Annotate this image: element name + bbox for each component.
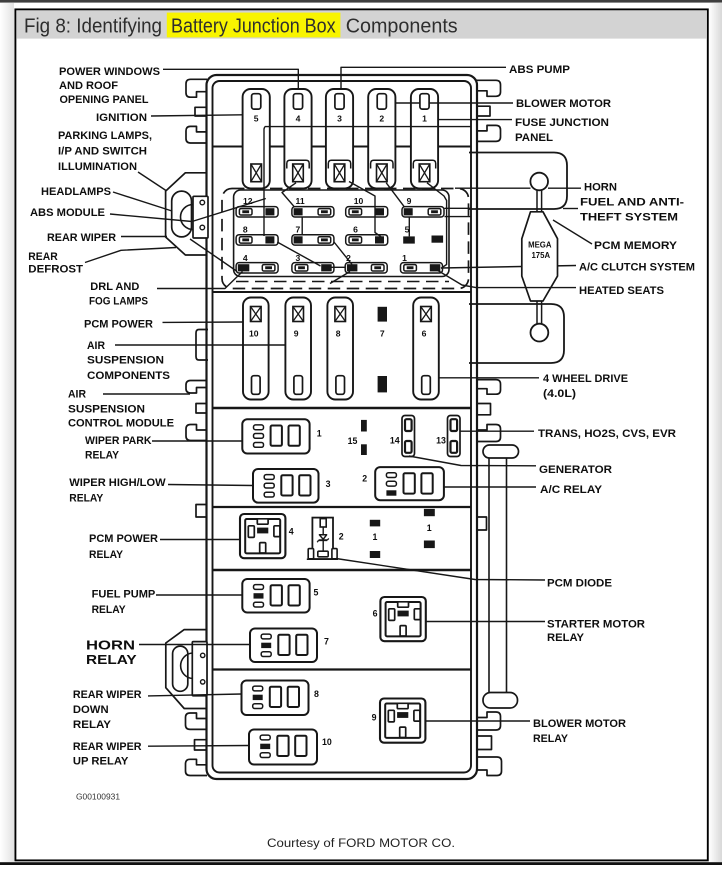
relay 7 horn <box>250 629 317 663</box>
wire fuse 9 to fuse 5 <box>408 217 410 237</box>
minifuse area solid box <box>234 190 449 277</box>
svg-text:RELAY: RELAY <box>547 632 585 644</box>
svg-text:8: 8 <box>336 328 341 338</box>
svg-text:7: 7 <box>296 225 301 235</box>
svg-text:FUSE JUNCTION: FUSE JUNCTION <box>515 117 609 129</box>
svg-text:FUEL PUMP: FUEL PUMP <box>92 589 156 601</box>
divider under top fuse row <box>213 145 471 147</box>
connector C2 pin circles <box>201 653 205 657</box>
left tab bracket mid 1 <box>186 381 207 394</box>
wire a/c relay leader <box>444 486 536 488</box>
svg-text:5: 5 <box>314 588 319 598</box>
svg-text:4: 4 <box>243 253 248 263</box>
wire slot2 X to fuse 9 <box>386 183 404 207</box>
left tab bracket bottom 1 <box>186 713 208 729</box>
wire power windows leader <box>163 69 298 89</box>
svg-text:Fig 8: IdentifyingBattery Junc: Fig 8: IdentifyingBattery Junction BoxCo… <box>24 15 458 38</box>
svg-text:7: 7 <box>380 328 385 338</box>
svg-text:11: 11 <box>296 196 305 206</box>
wire blower motor relay leader <box>426 720 531 722</box>
left tab bracket mid 2 <box>186 425 207 441</box>
slot windows row2 bottom <box>252 376 261 395</box>
mega fuse bottom stem <box>536 301 538 324</box>
svg-text:10: 10 <box>249 328 259 338</box>
svg-text:FUEL AND ANTI-: FUEL AND ANTI- <box>580 197 684 209</box>
fuse box outer shell <box>207 75 478 779</box>
wire pcm power relay leader <box>160 539 240 541</box>
mega fuse bottom ball <box>531 324 549 342</box>
relay 4 pcm power (square) <box>240 514 285 558</box>
divider below second fuse section <box>213 407 471 410</box>
svg-text:7: 7 <box>324 637 329 647</box>
svg-text:TRANS, HO2S, CVS, EVR: TRANS, HO2S, CVS, EVR <box>538 428 676 440</box>
svg-text:1: 1 <box>372 532 377 542</box>
wire slot5 to fuse 8 <box>263 127 266 236</box>
svg-text:RELAY: RELAY <box>92 604 126 616</box>
svg-text:PCM POWER: PCM POWER <box>84 319 153 331</box>
wire air susp control module leader <box>103 393 190 395</box>
minifuse 11 <box>292 207 334 217</box>
svg-text:G00100931: G00100931 <box>76 793 120 802</box>
svg-text:BLOWER MOTOR: BLOWER MOTOR <box>516 98 611 110</box>
fuse box inner shell <box>213 81 472 773</box>
svg-text:9: 9 <box>294 328 299 338</box>
right dog-bone channel top pill <box>483 445 519 458</box>
svg-text:RELAY: RELAY <box>85 450 119 462</box>
left tab bracket top 1 <box>186 79 207 97</box>
fuse 7 bars row2 <box>378 307 387 322</box>
svg-text:DOWN: DOWN <box>73 704 109 716</box>
slot X fuses row1 <box>251 164 262 182</box>
svg-text:IGNITION: IGNITION <box>96 112 147 124</box>
wire fuse 9 to right edge upper <box>445 207 472 209</box>
mega fuse top stem <box>536 190 538 212</box>
wire ignition leader <box>151 115 242 116</box>
svg-text:I/P AND SWITCH: I/P AND SWITCH <box>58 146 147 158</box>
wire fuse 3 to fuse 2 <box>332 266 346 268</box>
minifuse 2 <box>345 263 387 273</box>
divider below relay row 5 <box>213 668 471 670</box>
minifuse 8 <box>236 235 278 245</box>
left edge notch mid <box>196 404 207 414</box>
svg-text:A/C CLUTCH SYSTEM: A/C CLUTCH SYSTEM <box>579 262 695 274</box>
relay 5 fuel pump <box>242 579 309 613</box>
wire wiper park leader <box>152 440 242 442</box>
right dog-bone channel bottom pill <box>483 693 518 709</box>
svg-text:13: 13 <box>436 436 446 446</box>
svg-text:6: 6 <box>353 225 358 235</box>
wire slot1 X down to fuse 1 <box>427 183 447 268</box>
svg-text:PCM DIODE: PCM DIODE <box>547 578 613 590</box>
right tab bracket bottom 2 <box>477 757 502 776</box>
svg-text:14: 14 <box>390 436 400 446</box>
right tab bracket mid 2 <box>477 425 501 442</box>
svg-text:Courtesy of FORD MOTOR CO.: Courtesy of FORD MOTOR CO. <box>267 836 455 850</box>
svg-text:4: 4 <box>289 526 294 536</box>
dashed border of minifuse area <box>222 189 469 289</box>
bracket over slot3 X <box>328 160 350 168</box>
wire pcm diode leader <box>336 559 545 581</box>
svg-text:MEGA: MEGA <box>528 240 552 249</box>
bottom dark strip <box>0 862 722 865</box>
fuse 1b terminals <box>424 509 435 516</box>
svg-text:AND ROOF: AND ROOF <box>59 80 118 92</box>
wire fuel anti-theft leader <box>563 208 578 210</box>
right edge notch top <box>477 106 491 116</box>
minifuse 4 <box>236 263 278 273</box>
relay 8 rear wiper down <box>242 681 309 716</box>
svg-text:PCM POWER: PCM POWER <box>89 533 158 545</box>
wire fuse 2 stub <box>330 272 350 284</box>
svg-text:1: 1 <box>317 429 322 439</box>
wire pcm power leader <box>163 321 244 323</box>
bracket over slot1 X <box>413 160 435 168</box>
minifuse 3 <box>292 263 334 273</box>
left edge notch bottom <box>195 740 208 750</box>
svg-text:THEFT SYSTEM: THEFT SYSTEM <box>580 212 678 224</box>
minifuse 1 <box>401 263 443 273</box>
svg-text:WIPER PARK: WIPER PARK <box>85 435 152 447</box>
svg-text:RELAY: RELAY <box>89 549 123 561</box>
svg-text:10: 10 <box>354 196 364 206</box>
rounded duct A (horn feed) <box>469 153 567 210</box>
svg-text:SUSPENSION: SUSPENSION <box>68 404 145 416</box>
wire abs pump leader <box>341 67 506 89</box>
svg-text:HEADLAMPS: HEADLAMPS <box>41 186 112 198</box>
horn wire <box>455 187 531 189</box>
slot windows row1 <box>252 94 261 109</box>
wire abs module leader <box>110 199 266 222</box>
fuse 13 body <box>448 416 461 457</box>
long bus wire in top section <box>265 126 471 128</box>
wire fuse junction panel leader <box>438 119 513 121</box>
wire 4 wheel drive leader <box>439 377 539 379</box>
wire heated seats leader <box>437 270 576 288</box>
svg-text:3: 3 <box>326 479 331 489</box>
svg-text:9: 9 <box>372 713 377 723</box>
connector C2 octagon outline <box>166 630 207 709</box>
svg-text:4: 4 <box>296 113 301 123</box>
wire slot3 X to fuse 10 and fuse 6 <box>349 182 381 237</box>
fuse 1a terminals <box>370 520 380 527</box>
wire rear defrost leader <box>85 248 176 263</box>
svg-text:RELAY: RELAY <box>533 733 569 745</box>
svg-text:3: 3 <box>337 113 342 123</box>
inner dash row at bottom of minifuse area <box>236 281 449 283</box>
svg-text:HORN: HORN <box>86 638 135 653</box>
connector C1 socket rect <box>193 196 208 238</box>
wire drl fog leader <box>157 272 243 289</box>
relay 2 a/c <box>375 467 444 500</box>
svg-text:2: 2 <box>346 253 351 263</box>
left edge notch low <box>196 505 207 518</box>
top dark strip <box>0 0 722 3</box>
svg-text:WIPER HIGH/LOW: WIPER HIGH/LOW <box>69 477 166 489</box>
svg-text:PARKING LAMPS,: PARKING LAMPS, <box>58 130 152 142</box>
rounded duct B (lower horn feed) <box>469 304 564 363</box>
wire generator leader <box>409 456 536 466</box>
minifuse 6 <box>346 235 388 245</box>
divider under second fuse row <box>213 291 471 293</box>
svg-text:GENERATOR: GENERATOR <box>539 464 612 476</box>
wire air suspension components leader <box>115 344 286 346</box>
connector C1 pin circles <box>200 200 205 205</box>
svg-text:12: 12 <box>243 196 253 206</box>
wire starter motor leader <box>426 621 545 623</box>
wire pcm memory leader <box>553 220 592 244</box>
svg-text:(4.0L): (4.0L) <box>543 388 576 400</box>
minifuse 5 terminals <box>403 236 415 243</box>
relay 6 starter motor (square) <box>380 597 425 641</box>
wire rear wiper down leader <box>148 694 242 696</box>
left tab bracket top 2 <box>186 126 207 143</box>
relay 10 rear wiper up <box>249 730 317 765</box>
bracket over slot4 X <box>287 160 309 168</box>
svg-text:8: 8 <box>243 225 248 235</box>
relay 3 wiper high/low <box>253 469 319 503</box>
relay 1 wiper park <box>242 419 309 453</box>
svg-text:DRL AND: DRL AND <box>90 281 139 293</box>
svg-text:5: 5 <box>254 113 259 123</box>
wire rear wiper up leader <box>148 745 249 748</box>
svg-text:ABS MODULE: ABS MODULE <box>30 207 106 219</box>
svg-text:CONTROL MODULE: CONTROL MODULE <box>68 418 175 430</box>
wire wiper high/low leader <box>168 485 253 486</box>
svg-text:HORN: HORN <box>584 182 617 194</box>
fuse 14 body <box>402 416 415 457</box>
wire blower motor leader <box>396 102 513 104</box>
svg-text:REAR WIPER: REAR WIPER <box>73 741 142 753</box>
right edge notch mid <box>477 404 491 415</box>
wire rear wiper leader <box>121 236 167 238</box>
right dog-bone channel rails <box>488 458 490 692</box>
minifuse 9 <box>402 207 444 217</box>
svg-text:POWER WINDOWS: POWER WINDOWS <box>59 66 161 78</box>
svg-text:RELAY: RELAY <box>69 493 103 505</box>
svg-text:8: 8 <box>314 689 319 699</box>
right tab bracket bottom 1 <box>477 712 501 730</box>
wire trans leader <box>460 430 534 432</box>
svg-text:ABS PUMP: ABS PUMP <box>509 64 571 76</box>
wire fuse 11 to fuse 7 <box>301 217 303 235</box>
svg-text:2: 2 <box>379 113 384 123</box>
maxi fuse slots row1 (5,4,3,2,1) <box>243 89 270 188</box>
mega fuse top ball <box>530 173 548 191</box>
svg-text:AIR: AIR <box>87 340 105 352</box>
fuse 15 terminals <box>361 420 367 432</box>
svg-text:2: 2 <box>339 532 344 542</box>
svg-text:STARTER MOTOR: STARTER MOTOR <box>547 619 645 631</box>
pcm diode D2 body <box>312 518 333 559</box>
wire fuse 7 to fuse 2 <box>334 242 352 265</box>
left tall bracket mid <box>196 330 208 361</box>
svg-text:5: 5 <box>405 225 410 235</box>
svg-text:6: 6 <box>373 609 378 619</box>
svg-text:6: 6 <box>422 328 427 338</box>
svg-text:UP RELAY: UP RELAY <box>73 756 129 768</box>
minifuse 7 <box>292 235 334 245</box>
svg-text:1: 1 <box>402 253 407 263</box>
wire horn relay leader <box>139 644 250 646</box>
wire connector to fuse 4 <box>190 239 237 271</box>
svg-text:SUSPENSION: SUSPENSION <box>87 355 164 367</box>
svg-text:REAR WIPER: REAR WIPER <box>47 232 116 244</box>
wire fuse 9 to right edge lower <box>445 216 472 218</box>
fuse slots row2 (10,9,8,6) <box>243 298 269 400</box>
right edge notch bottom <box>477 736 492 750</box>
svg-text:175A: 175A <box>531 251 550 260</box>
wire slot4 X to fuse 11 <box>282 183 296 207</box>
svg-text:4 WHEEL DRIVE: 4 WHEEL DRIVE <box>543 373 629 385</box>
right edge notch low <box>477 517 487 530</box>
minifuse 12 <box>236 207 278 217</box>
minifuse 10 <box>346 207 388 217</box>
svg-text:PCM MEMORY: PCM MEMORY <box>594 240 678 252</box>
mega fuse body MEGA 175A <box>522 212 558 301</box>
connector C1 octagon outline <box>166 173 207 255</box>
right tab bracket top 1 <box>477 80 501 96</box>
wire fuel pump leader <box>156 594 242 596</box>
svg-text:1: 1 <box>427 523 432 533</box>
relay 9 blower motor (square) <box>380 699 425 743</box>
right tab bracket mid 1 <box>477 380 501 395</box>
svg-text:15: 15 <box>348 436 358 446</box>
svg-text:OPENING PANEL: OPENING PANEL <box>60 94 149 106</box>
svg-text:RELAY: RELAY <box>73 719 112 731</box>
bracket over slot2 X <box>371 160 393 168</box>
svg-text:DEFROST: DEFROST <box>28 264 83 276</box>
svg-text:ILLUMINATION: ILLUMINATION <box>58 161 137 173</box>
svg-text:COMPONENTS: COMPONENTS <box>87 370 171 382</box>
left edge notch top <box>195 107 207 116</box>
svg-text:FOG LAMPS: FOG LAMPS <box>89 296 148 308</box>
title bar <box>16 10 706 38</box>
yellow highlight <box>167 13 341 38</box>
svg-text:HEATED SEATS: HEATED SEATS <box>579 285 665 297</box>
svg-text:10: 10 <box>322 737 332 747</box>
svg-text:2: 2 <box>362 474 367 484</box>
wire illumination leader <box>138 172 166 191</box>
svg-text:1: 1 <box>422 113 427 123</box>
connector C2 oval <box>173 646 188 691</box>
svg-text:AIR: AIR <box>68 389 86 401</box>
connector C2 D-arc <box>181 653 193 679</box>
A/C clutch wire through mega fuse <box>441 266 576 269</box>
right tab bracket top 2 <box>477 125 501 141</box>
svg-text:3: 3 <box>296 253 301 263</box>
svg-text:9: 9 <box>407 196 412 206</box>
svg-text:RELAY: RELAY <box>86 652 137 667</box>
slot X fuses row2 <box>251 307 262 322</box>
svg-text:A/C RELAY: A/C RELAY <box>540 484 603 496</box>
svg-text:PANEL: PANEL <box>515 132 553 144</box>
connector C2 socket rect <box>192 642 207 696</box>
wire headlamps leader <box>113 192 172 211</box>
wire fuse 8 to fuse 3 <box>277 242 320 266</box>
svg-text:BLOWER MOTOR: BLOWER MOTOR <box>533 718 626 730</box>
left tab bracket bottom 2 <box>186 759 208 775</box>
divider below relay row 3 <box>213 569 471 572</box>
svg-text:REAR WIPER: REAR WIPER <box>73 689 142 701</box>
divider below relay row 1-2 <box>213 506 471 508</box>
connector C1 oval <box>172 191 192 237</box>
svg-text:REAR: REAR <box>28 251 57 263</box>
connector C1 D-arc <box>181 204 194 229</box>
